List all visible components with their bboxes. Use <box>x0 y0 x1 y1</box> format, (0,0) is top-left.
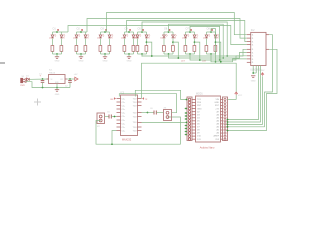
LED cell 6 <box>164 31 173 33</box>
wire cell 7 bottom to driver pin <box>190 56 247 60</box>
pin <box>247 61 251 63</box>
svg-text:+5V: +5V <box>261 70 265 72</box>
wire MAX gnd pin to loop <box>112 131 117 145</box>
wire MAX to MCU txd <box>142 121 187 123</box>
pin <box>138 98 142 100</box>
wire branch 8b <box>215 32 217 35</box>
wire branch 4a <box>124 32 126 35</box>
LED LD16 <box>214 35 217 38</box>
resistor R16 <box>214 46 217 52</box>
wire branch 1a <box>52 32 54 35</box>
svg-text:T1O: T1O <box>133 130 137 132</box>
pin <box>247 37 251 39</box>
ground under driver <box>251 75 255 77</box>
LED cell 7 <box>186 31 195 33</box>
wire branch 3a <box>100 32 102 35</box>
capacitor C1 <box>42 79 44 81</box>
svg-text:MOD1: MOD1 <box>196 94 203 96</box>
LED cell 2 <box>77 31 86 33</box>
svg-text:VIN: VIN <box>216 99 220 101</box>
wire branch 3b <box>109 32 111 35</box>
MCU module box <box>196 96 221 142</box>
svg-text:T1O: T1O <box>133 105 137 107</box>
pin <box>247 55 251 57</box>
wire net from cell 3 to driver pin <box>107 13 247 35</box>
svg-text:GND: GND <box>55 94 60 96</box>
pin header JP2 right <box>223 97 228 141</box>
pin <box>23 81 25 83</box>
resistor R13 <box>184 46 187 52</box>
wire bus to MCU header <box>228 66 261 123</box>
wire gnd from driver <box>252 66 254 74</box>
svg-text:T1O: T1O <box>133 116 137 118</box>
LED LD2 <box>60 35 63 38</box>
resistor R12 <box>172 46 175 52</box>
pin <box>117 130 121 132</box>
pin <box>247 51 251 53</box>
wire cell 7 mid tap <box>195 42 200 60</box>
LED LD5 <box>99 35 102 38</box>
svg-text:VCC: VCC <box>238 95 243 97</box>
wire cell 6 bottom to driver pin <box>169 52 247 58</box>
LED LD11 <box>163 35 166 38</box>
wire branch 2b <box>85 32 87 35</box>
LED LD3 <box>75 35 78 38</box>
wire branch 6b <box>172 32 174 35</box>
svg-text:GND: GND <box>197 108 202 110</box>
pin <box>117 112 121 114</box>
wire driver out1 to MCU <box>228 35 273 127</box>
pin out1 <box>266 34 269 36</box>
pin <box>117 115 121 117</box>
wire MAX to MCU rxd <box>135 90 186 99</box>
LED cell 5 <box>138 31 147 33</box>
LED LD12 <box>172 35 175 38</box>
pin <box>138 112 142 114</box>
svg-text:T1O: T1O <box>133 127 137 129</box>
svg-text:GND: GND <box>103 61 108 63</box>
pin <box>117 108 121 110</box>
LED cell 3 <box>101 31 110 33</box>
wire +5V out <box>67 78 75 80</box>
resistor R2 <box>60 46 63 52</box>
resistor R7 <box>123 46 126 52</box>
svg-text:RST: RST <box>215 105 220 107</box>
pin <box>138 126 142 128</box>
supply +5V MCU <box>235 92 238 94</box>
frame tick <box>0 62 5 64</box>
wire branch 5a <box>137 32 139 35</box>
svg-text:GND: GND <box>79 61 84 63</box>
svg-text:GND: GND <box>214 102 219 104</box>
pin <box>65 78 67 80</box>
wire bottom rail <box>26 82 70 88</box>
svg-text:T1O: T1O <box>133 102 137 104</box>
LED LD4 <box>84 35 87 38</box>
pin <box>247 58 251 60</box>
LED cell 1 <box>53 31 62 33</box>
LED LD10 <box>145 35 148 38</box>
pin <box>138 105 142 107</box>
net label TX right <box>142 97 144 99</box>
LED LD6 <box>108 35 111 38</box>
wire cell 8 top riser <box>211 29 216 62</box>
wire driver out2 to MCU <box>228 49 278 130</box>
wire branch 8a <box>206 32 208 35</box>
wire cell 5 top riser <box>142 22 227 56</box>
pin <box>117 105 121 107</box>
junction cell 5 right branch <box>146 41 148 43</box>
wire branch 6a <box>163 32 165 35</box>
pin <box>138 101 142 103</box>
junction cell 7 right branch <box>194 41 196 43</box>
LED LD8 <box>132 35 135 38</box>
pin <box>117 98 121 100</box>
wire <box>156 112 163 114</box>
wire net from cell 1 to driver pin <box>68 26 247 45</box>
svg-text:T1O: T1O <box>133 98 137 100</box>
pin <box>117 119 121 121</box>
wire branch 7a <box>185 32 187 35</box>
supply +5V near driver <box>261 73 264 75</box>
resistor R15 <box>205 46 208 52</box>
connector X2 left <box>97 113 105 124</box>
capacitor C2 <box>69 79 71 81</box>
pin header JP1 left <box>187 97 192 141</box>
wire branch 2a <box>76 32 78 35</box>
pin <box>117 101 121 103</box>
junction cell 6 right branch <box>172 41 174 43</box>
junction cell 8 right branch <box>215 41 217 43</box>
resistor R1 <box>51 46 54 52</box>
resistor R9 <box>136 46 139 52</box>
IC1 voltage regulator 78L05 <box>49 75 66 84</box>
svg-text:GND: GND <box>127 61 132 63</box>
svg-text:GND: GND <box>251 81 256 83</box>
wire branch 5b <box>146 32 148 35</box>
wire bus to MCU header <box>228 80 263 124</box>
net label RX left <box>114 97 116 99</box>
ground power <box>56 88 58 90</box>
wire MAX top to right connector <box>119 94 176 113</box>
wire from +5V <box>262 76 264 80</box>
wire cell 6 mid tap <box>173 42 178 58</box>
pin <box>247 41 251 43</box>
connector X3 right <box>164 110 172 121</box>
svg-text:T1O: T1O <box>133 112 137 114</box>
wire <box>111 116 116 118</box>
wire cell 6 top riser <box>169 24 224 58</box>
LED LD9 <box>136 35 139 38</box>
wire cell 8 bottom to driver pin <box>211 57 247 62</box>
svg-text:78L05: 78L05 <box>49 72 56 74</box>
wire cell 7 top riser <box>190 26 220 60</box>
wire stubs left header <box>185 108 188 110</box>
pin <box>247 48 251 50</box>
pin <box>23 78 25 80</box>
svg-text:+5V: +5V <box>74 74 78 76</box>
wire net from cell 2 to driver pin <box>87 19 247 39</box>
wire bus to MCU header <box>228 66 259 120</box>
pin <box>47 78 49 80</box>
wire cell 5 bottom to driver pin <box>142 49 247 56</box>
wire net from cell 4 to driver pin <box>127 21 247 42</box>
resistor R6 <box>108 46 111 52</box>
svg-text:RX: RX <box>110 99 114 101</box>
wire cell 8 mid tap <box>216 42 221 62</box>
diode D1 <box>27 78 30 81</box>
resistor R3 <box>75 46 78 52</box>
svg-text:PWR: PWR <box>20 85 25 87</box>
LED LD1 <box>51 35 54 38</box>
wire <box>105 116 110 118</box>
wire VCC net MAX to MCU <box>142 63 237 98</box>
svg-text:T1O: T1O <box>133 122 137 124</box>
svg-text:+5V: +5V <box>215 108 219 110</box>
LED cell 8 <box>207 31 216 33</box>
wire MAX left loop <box>96 117 180 144</box>
ground <box>55 56 59 58</box>
pin <box>117 126 121 128</box>
origin cross <box>34 99 41 106</box>
connector X1 power jack <box>21 78 23 82</box>
pin <box>138 121 142 123</box>
svg-text:AREF: AREF <box>213 135 219 138</box>
IC U1 MAX232 <box>121 95 138 136</box>
ground <box>79 56 83 58</box>
wire branch 1b <box>61 32 63 35</box>
resistor R14 <box>193 46 196 52</box>
resistor R4 <box>84 46 87 52</box>
wire <box>142 112 148 114</box>
wire cell 5 mid tap <box>147 42 152 56</box>
svg-text:IC2: IC2 <box>251 29 255 32</box>
resistor R10 <box>145 46 148 52</box>
wire vin rail <box>29 78 48 80</box>
pin out2 <box>266 48 269 50</box>
ground <box>103 56 107 58</box>
LED LD13 <box>184 35 187 38</box>
wire branch 4b <box>133 32 135 35</box>
svg-text:Arduino Nano: Arduino Nano <box>200 146 215 149</box>
svg-text:GND: GND <box>55 61 60 63</box>
pin <box>247 44 251 46</box>
wire branch 7b <box>194 32 196 35</box>
svg-text:MAX232: MAX232 <box>122 139 132 142</box>
resistor R11 <box>163 46 166 52</box>
ground <box>127 56 131 58</box>
resistor R8 <box>132 46 135 52</box>
LED LD7 <box>123 35 126 38</box>
pin <box>138 116 142 118</box>
LED cell 4 <box>125 31 134 33</box>
supply +5V arrow <box>75 77 78 81</box>
pin <box>247 34 251 36</box>
wire top cascade <box>62 31 69 33</box>
svg-text:RST: RST <box>197 105 202 107</box>
pin <box>117 123 121 125</box>
LED LD15 <box>205 35 208 38</box>
IC U2 ULN2803 driver <box>251 32 266 65</box>
pin <box>138 130 142 132</box>
resistor R5 <box>99 46 102 52</box>
wire regulator gnd <box>56 84 58 88</box>
LED LD14 <box>193 35 196 38</box>
